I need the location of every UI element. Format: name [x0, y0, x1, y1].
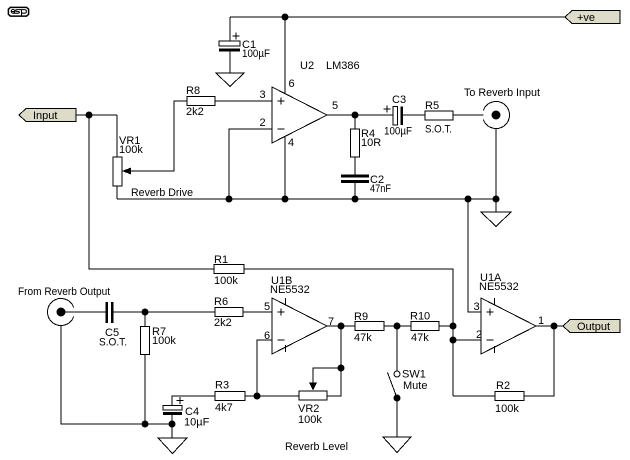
label VR2 100k: [298, 403, 322, 426]
wire input to VR1: [76, 114, 117, 116]
resistor R9: [355, 322, 384, 331]
label C3 100µF: [384, 94, 412, 138]
label SW1 Mute: [402, 369, 427, 393]
wire C1 bottom lead: [229, 52, 231, 74]
svg-text:S.O.T.: S.O.T.: [99, 337, 127, 349]
potentiometer VR1: [113, 157, 131, 186]
wire ground stub below C4: [171, 424, 173, 438]
label U2 LM386: [300, 60, 360, 72]
wire C1 top lead: [229, 17, 231, 41]
label R6 2k2: [214, 296, 232, 329]
wire VR2 wiper: [309, 368, 341, 391]
svg-text:R10: R10: [410, 311, 430, 323]
wire feedback down to VR2: [340, 326, 342, 368]
connector To Reverb Input (RCA jack): [483, 102, 509, 129]
node pin4 rail junction: [282, 196, 289, 203]
svg-text:SW1: SW1: [402, 369, 426, 381]
svg-text:100µF: 100µF: [242, 48, 270, 60]
svg-text:100k: 100k: [495, 403, 519, 415]
svg-text:Input: Input: [33, 110, 57, 122]
svg-text:Reverb Drive: Reverb Drive: [131, 187, 193, 199]
svg-text:4k7: 4k7: [215, 402, 233, 414]
svg-text:1: 1: [538, 315, 544, 327]
wire ground rail (Reverb Drive): [117, 198, 496, 200]
wire C3 to R5: [403, 114, 425, 116]
capacitor C1 (electrolytic): [219, 33, 240, 52]
svg-text:Output: Output: [577, 321, 610, 333]
output tag Output: [563, 320, 620, 334]
svg-text:From Reverb Output: From Reverb Output: [18, 286, 110, 298]
op-amp U1A: [481, 298, 536, 354]
svg-text:C3: C3: [392, 94, 406, 106]
svg-text:2k2: 2k2: [214, 317, 232, 329]
svg-text:47k: 47k: [411, 332, 429, 344]
wire rail ground stub: [495, 199, 497, 212]
capacitor C2: [341, 175, 369, 184]
node U1B output junction: [338, 323, 345, 330]
power tag +ve: [565, 11, 620, 25]
wire R8 to U2 pin 3: [215, 100, 272, 102]
node output junction: [551, 323, 558, 330]
resistor R7: [141, 327, 150, 355]
wire R1 to inverting node: [244, 269, 453, 396]
node pin2 to rail junction: [226, 196, 233, 203]
resistor R10: [411, 322, 439, 331]
resistor R3: [215, 392, 245, 401]
wire to U1A pin 2: [453, 339, 481, 341]
label C4 10µF: [184, 406, 210, 429]
label R5 S.O.T.: [425, 100, 452, 136]
svg-text:5: 5: [264, 301, 270, 313]
label R1 100k: [214, 254, 238, 287]
wire jack sleeve down: [495, 129, 497, 200]
resistor R1: [214, 265, 244, 274]
resistor R6: [215, 308, 243, 317]
svg-text:6: 6: [264, 330, 270, 342]
svg-text:R5: R5: [425, 100, 439, 112]
svg-text:R2: R2: [496, 380, 510, 392]
node C2 rail junction: [352, 196, 359, 203]
wire R4 top lead: [354, 115, 356, 129]
wire output to R2: [524, 326, 554, 396]
svg-text:R6: R6: [214, 296, 228, 308]
svg-text:R1: R1: [214, 254, 228, 266]
label VR1 100k: [119, 135, 143, 156]
node U2 output junction: [352, 112, 359, 119]
svg-text:100k: 100k: [298, 414, 322, 426]
wire C2 bottom lead: [354, 183, 356, 199]
wire rail to U1A pin 3: [468, 199, 481, 312]
wire U1A output pin 1: [536, 325, 563, 327]
svg-text:6: 6: [289, 78, 295, 90]
node R10/R1 junction: [450, 323, 457, 330]
wire R3 to VR2 left terminal: [245, 395, 299, 397]
wire SW1 top: [396, 326, 398, 371]
resistor R4: [351, 129, 360, 157]
svg-text:100k: 100k: [119, 144, 143, 156]
wire VR1 top lead: [116, 115, 118, 157]
wire U2 output pin 5: [327, 114, 393, 116]
svg-text:10µF: 10µF: [184, 417, 210, 429]
connector From Reverb Output (RCA jack): [48, 298, 74, 325]
node U1A pin 2 junction: [450, 337, 457, 344]
svg-text:Reverb Level: Reverb Level: [285, 441, 348, 453]
wire R10 to inverting node: [439, 325, 453, 327]
wire VR1 wiper to R8: [130, 101, 187, 171]
wire R6 to U1B pin 5: [243, 311, 272, 313]
wire U2 pin 2: [229, 129, 272, 199]
node R7 bottom junction: [142, 421, 149, 428]
label R2 100k: [495, 380, 519, 415]
resistor R2: [495, 392, 524, 401]
op-amp U1B: [272, 298, 327, 354]
node rail to U1A branch: [465, 196, 472, 203]
label C1 100µF: [242, 39, 270, 60]
svg-text:R9: R9: [354, 311, 368, 323]
wire SW1 to ground: [396, 398, 398, 437]
svg-text:NE5532: NE5532: [270, 284, 310, 296]
label R7 100k: [152, 326, 176, 347]
potentiometer VR2: [299, 391, 327, 400]
wire U1B output pin 7: [327, 325, 355, 327]
node VR2 wiper junction: [338, 365, 345, 372]
wire jack to C5: [65, 311, 106, 313]
label C5 S.O.T.: [99, 327, 127, 349]
wire R9 to R10: [384, 325, 411, 327]
wire VR1 bottom lead: [116, 186, 118, 199]
wire R4 to C2: [354, 157, 356, 175]
svg-text:LM386: LM386: [326, 60, 360, 72]
node U1B pin6 junction: [254, 393, 261, 400]
wire U2 pin 6 supply: [284, 17, 286, 94]
svg-text:2: 2: [260, 117, 266, 129]
wire R7 top lead: [144, 312, 146, 327]
capacitor C4 (electrolytic): [163, 397, 184, 415]
node input junction: [86, 112, 93, 119]
label U1B NE5532: [270, 275, 310, 296]
wire U1B pin 6 feedback: [257, 340, 272, 396]
svg-text:NE5532: NE5532: [479, 281, 519, 293]
node SW1 junction: [394, 323, 401, 330]
svg-text:100k: 100k: [152, 335, 176, 347]
wire C4 bottom lead: [171, 415, 173, 424]
input tag Input: [19, 109, 76, 123]
node top rail to U2 pin 6: [282, 14, 289, 21]
label R9 47k: [354, 311, 372, 344]
wire input branch down to R1: [89, 115, 214, 269]
wire R5 to reverb input jack: [453, 114, 493, 116]
svg-text:100µF: 100µF: [384, 126, 412, 138]
ground below SW1: [383, 437, 411, 453]
node R7 top junction: [142, 309, 149, 316]
ground below To Reverb Input jack: [481, 212, 511, 227]
node C4 ground junction: [169, 421, 176, 428]
svg-text:5: 5: [332, 100, 338, 112]
wire U2 pin 4 to ground rail: [284, 136, 286, 199]
wire VR2 right terminal: [327, 368, 341, 396]
label C2 47nF: [370, 174, 391, 195]
switch SW1 (mute): [388, 371, 401, 402]
wire R2 to inverting node: [453, 395, 495, 397]
label R10 47k: [410, 311, 430, 345]
svg-text:R8: R8: [186, 85, 200, 97]
svg-text:R3: R3: [215, 380, 229, 392]
capacitor C5: [106, 302, 114, 323]
label R8 2k2: [186, 85, 204, 118]
label R3 4k7: [215, 380, 233, 415]
svg-text:3: 3: [474, 301, 480, 313]
ESP logo: [8, 7, 28, 16]
capacitor C3 (electrolytic): [384, 106, 404, 126]
svg-text:100k: 100k: [214, 275, 238, 287]
op-amp U2: [272, 87, 327, 143]
wire R7 bottom lead: [144, 355, 146, 425]
label R4 10R: [361, 128, 381, 149]
node jack sleeve rail junction: [493, 196, 500, 203]
svg-text:4: 4: [288, 137, 294, 149]
wire jack sleeve to ground rail: [61, 326, 174, 425]
svg-text:To Reverb Input: To Reverb Input: [464, 87, 540, 99]
svg-text:7: 7: [328, 316, 334, 328]
svg-text:47k: 47k: [354, 332, 372, 344]
svg-text:Mute: Mute: [403, 380, 427, 392]
svg-text:10R: 10R: [361, 137, 381, 149]
svg-text:47nF: 47nF: [370, 183, 391, 195]
label U1A NE5532: [479, 272, 519, 293]
wire C4 top lead to R3: [172, 396, 215, 406]
svg-text:3: 3: [260, 89, 266, 101]
resistor R5: [425, 111, 453, 120]
ground below C4: [158, 438, 187, 454]
resistor R8: [187, 97, 215, 106]
svg-text:S.O.T.: S.O.T.: [425, 124, 452, 136]
svg-text:U2: U2: [300, 60, 314, 72]
svg-text:+ve: +ve: [577, 12, 595, 24]
wire positive supply rail: [230, 16, 565, 18]
ground below C1: [216, 73, 244, 87]
svg-text:2k2: 2k2: [186, 106, 204, 118]
wire C5 to R6: [114, 311, 216, 313]
